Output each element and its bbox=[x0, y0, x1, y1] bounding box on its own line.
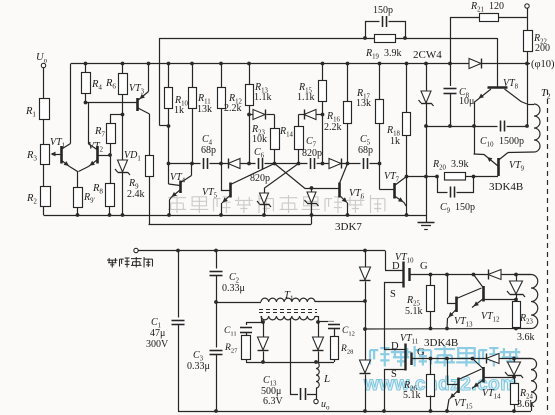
svg-text:68p: 68p bbox=[358, 145, 373, 156]
svg-text:3.9k: 3.9k bbox=[384, 48, 402, 59]
svg-text:1.1k: 1.1k bbox=[297, 92, 315, 103]
svg-text:3DK7: 3DK7 bbox=[335, 221, 362, 233]
svg-text:5.1k: 5.1k bbox=[403, 390, 421, 401]
svg-text:2CW4: 2CW4 bbox=[413, 49, 442, 61]
svg-text:47μ: 47μ bbox=[150, 328, 165, 339]
svg-text:D: D bbox=[391, 341, 399, 352]
svg-text:G: G bbox=[420, 261, 428, 272]
svg-text:300V: 300V bbox=[146, 339, 169, 350]
svg-text:0.33μ: 0.33μ bbox=[187, 361, 210, 372]
svg-text:1.1k: 1.1k bbox=[254, 92, 272, 103]
svg-text:6.3V: 6.3V bbox=[263, 396, 284, 407]
svg-text:S: S bbox=[390, 289, 396, 300]
svg-text:13k: 13k bbox=[197, 104, 212, 115]
svg-text:10k: 10k bbox=[252, 134, 267, 145]
svg-text:3DK4B: 3DK4B bbox=[489, 181, 523, 193]
svg-text:3.6k: 3.6k bbox=[517, 332, 535, 343]
svg-text:0.33μ: 0.33μ bbox=[222, 283, 245, 294]
svg-text:200: 200 bbox=[535, 43, 550, 54]
svg-text:150p: 150p bbox=[373, 5, 393, 16]
svg-text:S: S bbox=[391, 369, 397, 380]
svg-text:D: D bbox=[392, 261, 400, 272]
svg-text:2.2k: 2.2k bbox=[224, 103, 242, 114]
svg-text:13k: 13k bbox=[356, 98, 371, 109]
svg-text:3.9k: 3.9k bbox=[451, 159, 469, 170]
svg-text:1k: 1k bbox=[174, 105, 184, 116]
svg-text:5.1k: 5.1k bbox=[405, 306, 423, 317]
svg-text:L: L bbox=[323, 373, 330, 385]
svg-text:150p: 150p bbox=[455, 202, 475, 213]
svg-text:820p: 820p bbox=[250, 173, 270, 184]
svg-text:120: 120 bbox=[489, 1, 504, 12]
svg-text:1k: 1k bbox=[390, 136, 400, 147]
svg-text:2.4k: 2.4k bbox=[127, 189, 145, 200]
svg-text:10μ: 10μ bbox=[459, 96, 474, 107]
svg-text:(φ10): (φ10) bbox=[531, 59, 555, 70]
svg-text:68p: 68p bbox=[201, 145, 216, 156]
svg-text:3DK4B: 3DK4B bbox=[424, 337, 458, 349]
svg-text:2.2k: 2.2k bbox=[324, 122, 342, 133]
svg-text:1500p: 1500p bbox=[499, 136, 524, 147]
svg-text:820p: 820p bbox=[302, 148, 322, 159]
